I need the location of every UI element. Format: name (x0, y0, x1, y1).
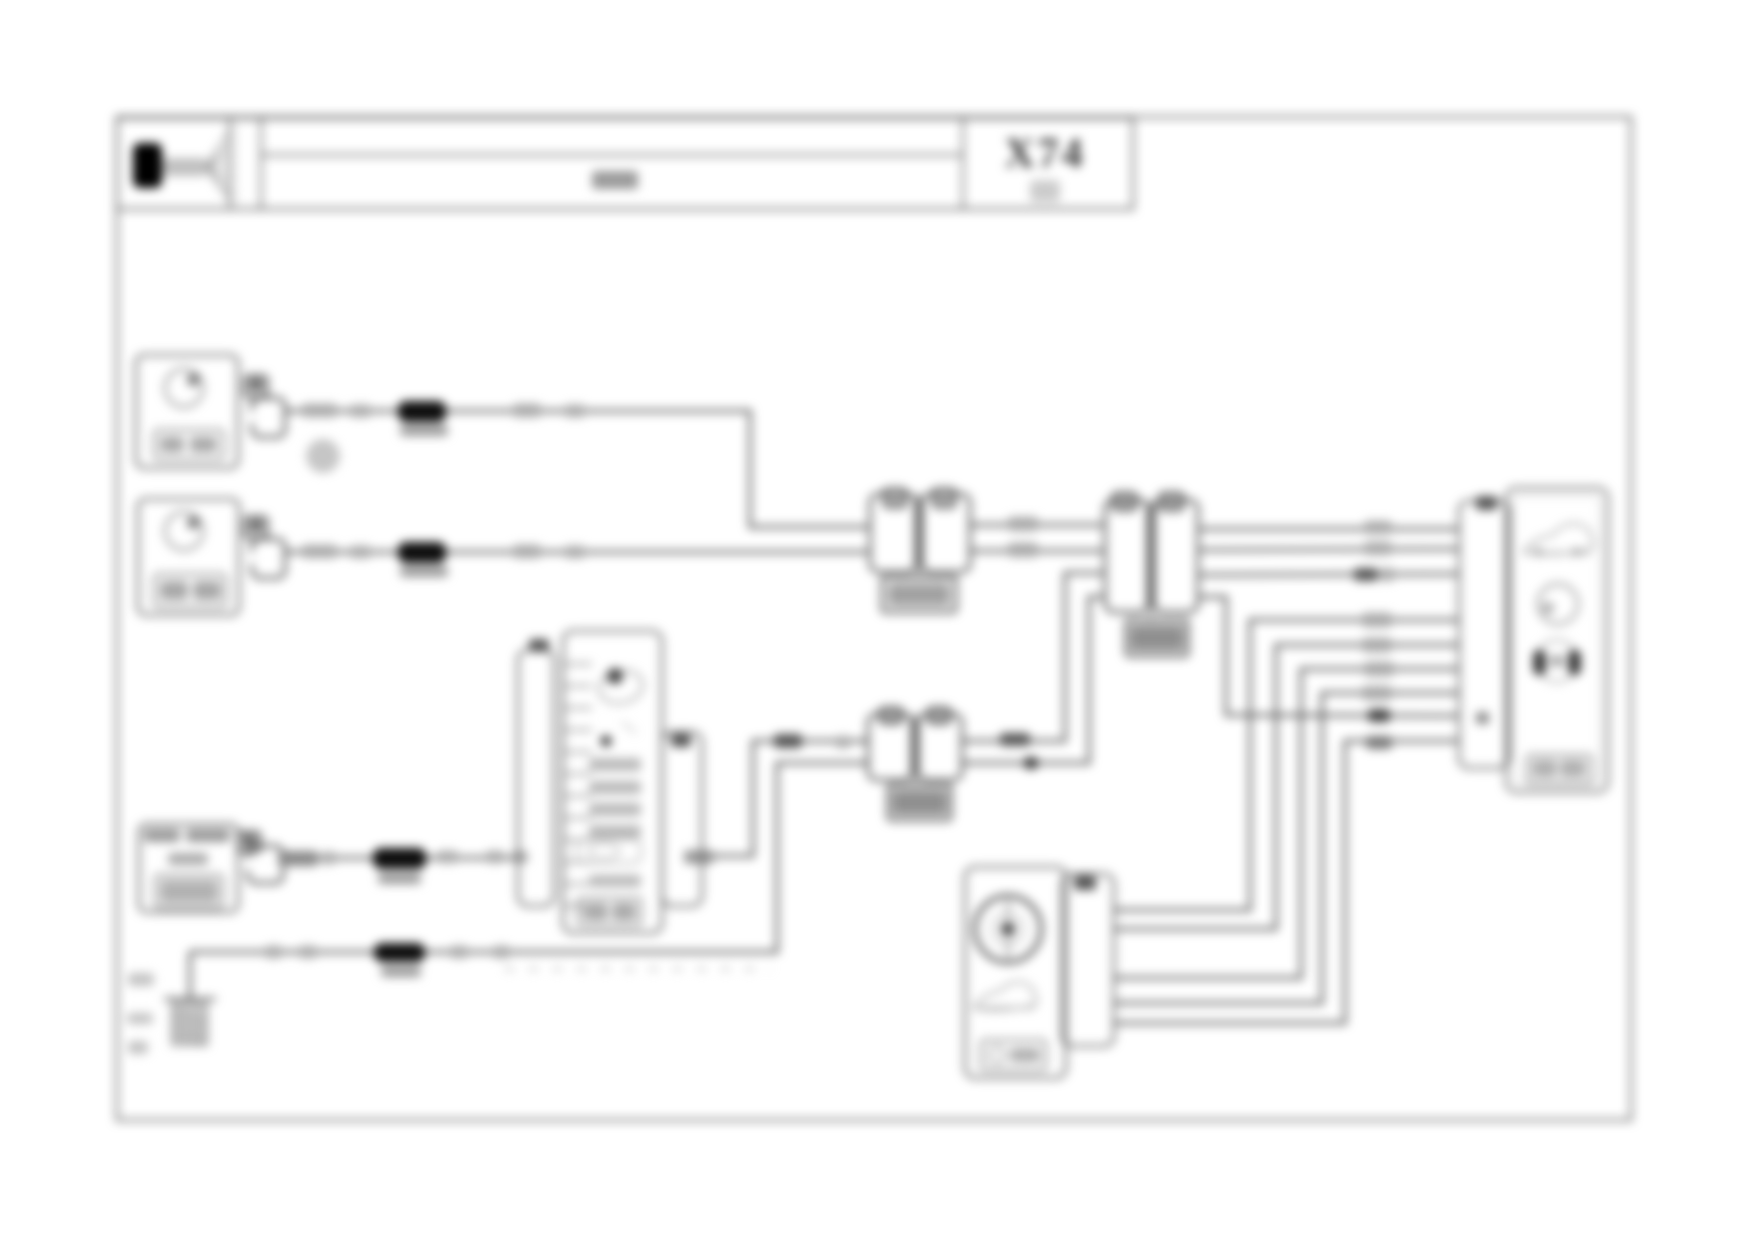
connector C (868, 708, 962, 820)
wire S-N 1 label (1362, 613, 1392, 627)
wire W3 labels left (278, 851, 336, 866)
title text (592, 171, 638, 189)
wire S-N 5 label (1366, 736, 1392, 749)
component H2 door switch (138, 499, 239, 615)
splice S4 (373, 848, 426, 869)
wire B-N row3 (1200, 574, 1459, 575)
wire W2 (285, 551, 868, 554)
wire S-N 2 label (1362, 638, 1392, 652)
ground wire labels right (450, 946, 510, 958)
splice S2 (398, 542, 446, 563)
connector B (1105, 493, 1198, 656)
splice S1 (398, 401, 446, 422)
PEB relay (577, 839, 641, 863)
dashed screen line (505, 967, 770, 971)
wire S-N 4 label (1362, 686, 1392, 700)
wire B-C 1 (963, 573, 1103, 741)
wire PEB-C labels (684, 734, 850, 864)
ground wire labels left (265, 946, 317, 958)
sheet subtext (1030, 180, 1060, 202)
svg-text:X74: X74 (1004, 131, 1085, 177)
wire A-B row1 label (1008, 517, 1038, 531)
connector A (870, 489, 970, 612)
wire B-C 2 dark label (1024, 757, 1038, 769)
unit N (1506, 488, 1608, 792)
PEB left strip (518, 639, 554, 906)
PEB dark dot (601, 722, 637, 747)
wire W3 (283, 857, 520, 860)
unit N connector strip (1459, 496, 1509, 768)
wire S-N 4 (1114, 693, 1459, 1003)
wire C-ground (190, 763, 868, 952)
wire B-N row4 label (1368, 709, 1390, 722)
wire W2 labels right (513, 545, 585, 558)
connector of H1 (245, 376, 285, 437)
wire B-N row1 label (1364, 521, 1392, 534)
wire B-N row2 label (1364, 542, 1392, 555)
wire W2 labels left (302, 545, 371, 558)
ground labels (127, 973, 154, 1054)
wire B-N row4 routed (1200, 597, 1459, 716)
wire A-B row2 (970, 550, 1103, 553)
logo fan lines (206, 127, 240, 203)
ignition switch S (965, 867, 1066, 1078)
wire S-N 3 (1114, 669, 1459, 978)
wire S-N 3 label (1364, 662, 1394, 676)
switch connector strip (1062, 874, 1114, 1046)
PEB bar low (589, 875, 641, 887)
ground (164, 952, 216, 1045)
page border frame (117, 117, 1631, 1120)
wire W1 labels left (302, 404, 371, 417)
component H1 door switch (136, 355, 238, 468)
wire B-N row3 labels (1354, 568, 1394, 581)
wire S-N 5 (1114, 741, 1459, 1023)
wire W1 (285, 411, 868, 527)
wire A-B row2 label (1008, 543, 1038, 557)
logo gray bar (162, 158, 206, 176)
connector of H2 (245, 517, 285, 578)
title block (117, 118, 1133, 209)
logo black box (133, 143, 162, 188)
PEB main box (563, 631, 662, 933)
wire B-C 1 label (1000, 733, 1030, 746)
wire B-C 2 (963, 597, 1103, 763)
splice S3 label (381, 966, 421, 977)
wire PEB-C (702, 741, 868, 856)
PEB right strip (662, 732, 702, 906)
splice S1 label (400, 425, 448, 436)
wire W3 labels right (437, 851, 528, 863)
splice S2 label (400, 566, 448, 577)
PEB fuse bars (589, 758, 641, 838)
splice S3 (374, 943, 425, 962)
PEB label box (578, 898, 641, 925)
wire A-B row1 (970, 524, 1103, 527)
splice ball M1 (306, 439, 340, 473)
wire W1 labels right (513, 404, 585, 417)
wire S-N 1 (1114, 620, 1459, 910)
wire B-N row1 (1200, 528, 1459, 531)
component TCU (139, 824, 238, 912)
PEB lamp icon (596, 667, 646, 707)
wire S-N 2 (1114, 645, 1459, 929)
wire B-N row2 (1200, 549, 1459, 550)
splice S4 label (378, 873, 421, 884)
connector of TCU (238, 832, 283, 883)
sheet code X74 (1004, 131, 1085, 177)
